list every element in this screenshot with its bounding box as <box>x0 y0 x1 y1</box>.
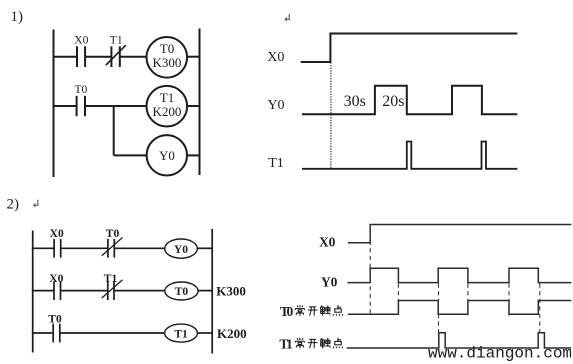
wire rung2 mid <box>61 290 108 292</box>
dashed line at Y0 rise 2 / T1 pulse 1 <box>438 284 440 333</box>
waveform T1 with reset pulses <box>302 142 517 169</box>
wire coil Y0 to right rail <box>187 154 200 156</box>
svg-text:Y0: Y0 <box>174 244 188 256</box>
wire coil Y0 to right rail <box>197 247 212 249</box>
wire rung1 to coil <box>120 56 147 58</box>
wire rung2 to coil <box>114 290 165 292</box>
contact X0 (rung2) <box>53 281 55 300</box>
dashed line at Y0 fall 2 <box>467 284 469 316</box>
wire coil T1 to right rail <box>187 105 199 107</box>
left power rail L2 <box>32 231 34 353</box>
dashed reference lines <box>370 226 540 333</box>
wire rung3 to coil <box>114 154 147 156</box>
wire rung1 left <box>32 247 54 249</box>
contact T0 normally-closed (rung1) <box>107 239 109 258</box>
svg-text:2): 2) <box>7 197 20 213</box>
svg-text:T1: T1 <box>268 156 284 171</box>
wire rung1 mid <box>85 56 111 58</box>
paragraph return mark (top right) <box>284 14 289 22</box>
svg-text:30s: 30s <box>344 93 366 110</box>
svg-text:T0: T0 <box>48 314 62 326</box>
svg-text:T0: T0 <box>160 41 174 56</box>
dashed line at X0/Y0 rise <box>369 226 371 316</box>
contact T0 (rung3) <box>52 324 54 343</box>
dashed line at Y0 fall 1 <box>397 284 399 301</box>
svg-text:X0: X0 <box>319 234 336 249</box>
wire rung1 left <box>53 56 78 58</box>
wire rung2 left <box>32 290 54 292</box>
left power rail L1 <box>53 30 55 178</box>
dotted reference line at X0 rise <box>330 63 332 170</box>
svg-text:T1: T1 <box>279 336 293 351</box>
svg-text:T1: T1 <box>160 90 174 105</box>
contact T1 normally-closed (rung2) <box>107 281 109 300</box>
coil T1 K200 (oval) <box>165 324 198 342</box>
waveform T1 contact with pulses <box>347 333 571 348</box>
dashed line at Y0 fall 3 / T1 pulse 2 <box>539 284 541 333</box>
svg-text:Y0: Y0 <box>159 148 175 163</box>
coil T0 K300 <box>147 37 188 78</box>
svg-text:Y0: Y0 <box>321 275 338 290</box>
wire rung2 to coil <box>85 105 147 107</box>
wire coil T1 to right rail <box>197 332 212 334</box>
CJK 常开触点 (T0 row) <box>295 305 342 316</box>
svg-text:K300: K300 <box>153 55 182 70</box>
waveform Y0 <box>347 268 571 282</box>
svg-text:K300: K300 <box>216 284 246 299</box>
svg-text:T0: T0 <box>106 228 120 240</box>
dashed line at Y0 rise 3 <box>508 284 510 316</box>
svg-text:T0: T0 <box>175 286 189 298</box>
waveform T0 contact <box>348 301 571 315</box>
coil Y0 (oval) <box>165 239 198 258</box>
svg-text:K200: K200 <box>217 326 247 341</box>
wire branch vertical <box>113 106 115 155</box>
coil Y0 <box>147 135 187 175</box>
svg-text:T1: T1 <box>174 328 188 340</box>
right power rail R1 <box>199 29 201 176</box>
contact X0 (rung1) <box>53 239 55 258</box>
wire rung1 to coil <box>114 247 165 249</box>
coil T0 K300 (oval) <box>165 282 198 300</box>
right power rail R2 <box>211 229 213 354</box>
contact T1 normally-closed (rung1) <box>110 46 112 67</box>
svg-text:T0: T0 <box>75 84 88 96</box>
svg-text:T1: T1 <box>104 273 118 285</box>
wire rung3 to coil <box>60 332 165 334</box>
coil T1 K200 <box>147 86 188 127</box>
CJK 常开触点 (T1 row) <box>295 338 342 349</box>
svg-text:20s: 20s <box>382 93 404 110</box>
svg-text:X0: X0 <box>74 35 88 47</box>
contact T0 (rung2) <box>76 96 78 116</box>
wire rung1 mid <box>61 247 108 249</box>
wire rung3 left <box>32 332 53 334</box>
contact X0 (rung1) <box>76 46 78 67</box>
wire rung2 left <box>53 105 77 107</box>
svg-text:K200: K200 <box>153 104 182 119</box>
svg-text:X0: X0 <box>267 50 284 65</box>
svg-text:1): 1) <box>11 9 24 25</box>
svg-text:T0: T0 <box>280 304 294 319</box>
wire coil T0 to right rail <box>198 290 212 292</box>
svg-text:T1: T1 <box>110 35 123 47</box>
svg-text:X0: X0 <box>50 228 64 240</box>
wire coil T0 to right rail <box>187 56 199 58</box>
svg-text:Y0: Y0 <box>267 98 284 113</box>
waveform Y0 <box>302 86 517 115</box>
svg-text:X0: X0 <box>49 273 63 285</box>
waveform X0 <box>348 225 572 243</box>
svg-text:www.diangon.com: www.diangon.com <box>428 345 572 363</box>
waveform X0 <box>301 34 518 63</box>
paragraph return mark (after 2) <box>33 200 38 208</box>
